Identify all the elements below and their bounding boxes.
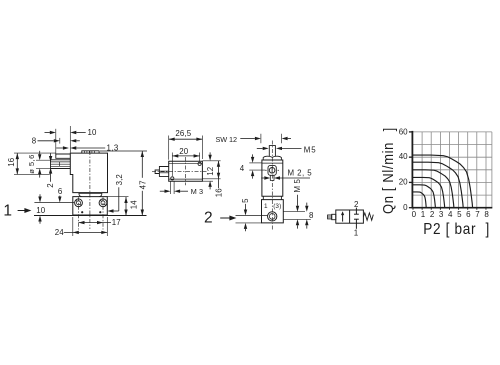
dim 5: arrows xyxy=(245,204,247,210)
view 2: port outer circle xyxy=(268,212,277,221)
view 1: coil body outline xyxy=(70,153,107,193)
dim 8: dimension line and arrows xyxy=(38,140,54,142)
top view: M3 hole bottom-left xyxy=(171,177,174,180)
svg-text:47: 47 xyxy=(138,180,147,189)
dim 17: dimension line with outward arrows xyxy=(79,222,112,224)
svg-text:6: 6 xyxy=(466,210,471,219)
view 2: manual override rounded square xyxy=(268,165,276,175)
svg-text:M 2, 5: M 2, 5 xyxy=(288,168,313,177)
dim 10 top: dimension line and arrows xyxy=(45,132,50,134)
top view: connector block xyxy=(159,167,168,177)
svg-text:M5: M5 xyxy=(304,145,317,154)
top view: body rectangle xyxy=(169,161,203,181)
svg-text:12: 12 xyxy=(206,167,215,176)
svg-text:4: 4 xyxy=(240,164,245,173)
svg-text:]: ] xyxy=(486,221,490,238)
svg-text:3,2: 3,2 xyxy=(115,174,124,185)
chart: horizontal gridlines xyxy=(413,132,492,195)
dim 16 left: dimension line with arrows xyxy=(16,153,18,174)
dim 3,2: leader line and arrow xyxy=(118,187,120,211)
view 1: right mounting screw xyxy=(99,199,107,207)
top view right extension lines xyxy=(202,160,220,162)
dim 10 top: extension line at body edge xyxy=(69,126,71,153)
view 2 right: port tangent extension lines xyxy=(283,211,305,213)
svg-text:5: 5 xyxy=(457,210,462,219)
svg-text:8: 8 xyxy=(32,136,37,145)
chart: vertical gridlines xyxy=(422,132,492,208)
dim 26,5: dimension line with outward arrows xyxy=(169,138,203,140)
symbol: solenoid box inner xyxy=(332,214,336,219)
top view: M3 hole top-right xyxy=(198,162,201,165)
view 1: left mounting screw xyxy=(75,199,83,207)
svg-text:M 3: M 3 xyxy=(191,187,204,196)
dim dia 5,6: arrows xyxy=(39,151,41,155)
svg-text:ø 5,6: ø 5,6 xyxy=(27,154,36,174)
view label 1: arrow xyxy=(18,210,26,212)
dim M5: arrows xyxy=(257,147,263,149)
view 2: hex nut top with arcs xyxy=(263,156,281,160)
symbol: valve body xyxy=(336,210,364,223)
chart: x axis ticks xyxy=(412,208,414,209)
svg-text:10: 10 xyxy=(36,206,46,215)
symbol: flow arrow in left cell xyxy=(342,215,344,222)
dim 12: arrows xyxy=(209,152,211,155)
svg-text:6: 6 xyxy=(58,187,63,196)
symbol: port line 2 xyxy=(355,208,357,210)
extension line from bump top to 47 dim xyxy=(100,150,147,152)
svg-text:40: 40 xyxy=(399,152,408,161)
svg-text:26,5: 26,5 xyxy=(175,129,191,138)
view 1: top connector bump xyxy=(82,151,99,153)
dim 4: extension lines xyxy=(249,162,261,164)
svg-text:60: 60 xyxy=(399,128,408,137)
view 2: override circle xyxy=(269,168,275,174)
svg-text:1: 1 xyxy=(3,203,12,220)
svg-text:0: 0 xyxy=(403,203,408,212)
view 2: body seam line xyxy=(262,162,283,164)
svg-text:Qn [ Nl/min: Qn [ Nl/min xyxy=(379,142,396,214)
svg-text:4: 4 xyxy=(448,210,453,219)
view 1: bottom mounting surface line xyxy=(34,215,147,217)
dim 10 bottom-left: arrows xyxy=(39,194,41,196)
chart: y axis ticks xyxy=(409,131,412,133)
top view: inner edge lines xyxy=(169,162,203,164)
dim M 5: leader arrows xyxy=(297,195,299,206)
dim SW 12: arrows xyxy=(240,138,255,140)
chart: x axis xyxy=(412,207,493,209)
svg-text:20: 20 xyxy=(179,147,189,156)
chart: y axis xyxy=(411,131,413,209)
svg-text:2: 2 xyxy=(354,200,359,209)
dim 4: arrows xyxy=(252,154,254,157)
dim 8: tick extension xyxy=(59,138,61,144)
dim 10 bottom-left: extension line at screw center height xyxy=(34,202,74,204)
dim 14: dimension line with arrows xyxy=(125,197,127,216)
top view: vertical center line xyxy=(185,157,187,185)
svg-text:24: 24 xyxy=(55,228,65,237)
svg-text:2: 2 xyxy=(430,210,435,219)
view 1: plug terminal block xyxy=(51,160,71,169)
view 1: bump ridge ticks xyxy=(83,151,85,153)
dim dia 5,6: extension lines xyxy=(36,159,50,161)
symbol: solenoid box outer xyxy=(328,215,332,219)
view 1: terminal end tick xyxy=(59,162,61,166)
top view: horizontal center line xyxy=(152,171,207,173)
svg-text:1: 1 xyxy=(354,228,359,237)
dim 10 top: extension line left xyxy=(55,129,57,156)
view 2: vertical center line xyxy=(271,141,273,231)
svg-text:16: 16 xyxy=(214,188,223,198)
svg-text:17: 17 xyxy=(112,218,121,227)
view 2: port center leader line xyxy=(236,215,268,217)
dim 2: arrows xyxy=(50,153,52,156)
dim 14: extension line at base top xyxy=(108,196,129,198)
symbol: blocked port top T xyxy=(355,210,357,214)
svg-text:10: 10 xyxy=(88,128,98,137)
view 2: lower block xyxy=(262,200,284,223)
svg-text:0: 0 xyxy=(412,210,417,219)
symbol: return spring xyxy=(363,213,373,220)
svg-text:3: 3 xyxy=(439,210,444,219)
dim SW 12: extension lines xyxy=(260,134,262,143)
svg-text:20: 20 xyxy=(399,177,408,186)
svg-text:2: 2 xyxy=(204,210,213,227)
svg-text:]: ] xyxy=(380,128,397,132)
svg-text:(3): (3) xyxy=(273,203,281,210)
view 2: port inner circle xyxy=(269,214,275,220)
svg-text:14: 14 xyxy=(130,200,139,210)
dim 16 left: extension lines xyxy=(14,152,56,154)
dim 8 right: arrows xyxy=(306,203,308,206)
view 1: mounting base block xyxy=(73,197,108,215)
view 2: stem below override xyxy=(270,175,274,180)
svg-text:M 5: M 5 xyxy=(293,178,302,192)
view 2: upper body rectangle xyxy=(262,160,283,196)
dim 1,3: arrows xyxy=(56,147,63,149)
view 2: M5 stem xyxy=(269,146,275,157)
view 1: screw center lines xyxy=(78,197,80,229)
svg-text:7: 7 xyxy=(475,210,480,219)
svg-text:SW 12: SW 12 xyxy=(216,135,237,144)
svg-text:16: 16 xyxy=(7,157,16,167)
dim M 3: arrows xyxy=(160,190,165,192)
symbol: blocked port bottom T xyxy=(355,219,357,223)
dim 26,5: extension lines xyxy=(168,136,170,160)
view 1: plug top piece xyxy=(56,154,71,158)
dim 20: extension lines to holes xyxy=(171,153,173,177)
symbol: solenoid mid line xyxy=(328,216,332,218)
svg-text:8: 8 xyxy=(309,211,314,220)
dim M 3: extension lines xyxy=(170,181,172,194)
view 1: vertical center line xyxy=(89,151,91,229)
dim 6: leader arrow down xyxy=(59,196,61,197)
symbol: cell divider xyxy=(349,210,351,223)
dim M 2,5: arrows xyxy=(261,177,264,179)
dim 24: dimension line with outward arrows xyxy=(64,231,108,233)
dim 47: dimension line xyxy=(141,151,143,178)
svg-text:1: 1 xyxy=(421,210,426,219)
svg-text:1,3: 1,3 xyxy=(107,144,119,153)
symbol: port line 1 xyxy=(355,223,357,229)
svg-text:1: 1 xyxy=(264,203,268,210)
svg-text:8: 8 xyxy=(484,210,489,219)
view label 2: arrow xyxy=(220,217,230,219)
top view: connector lines xyxy=(159,170,168,172)
chart: flow curves xyxy=(413,155,473,208)
view 2: override slot xyxy=(271,168,273,173)
svg-text:2: 2 xyxy=(46,183,55,188)
view 2: neck between body and block xyxy=(262,196,264,199)
top view: connector pin xyxy=(155,170,159,174)
svg-text:5: 5 xyxy=(241,198,250,203)
view 1: port dots on base bottom xyxy=(81,211,83,213)
dim 16 right: dimension line with arrows xyxy=(218,161,220,189)
svg-text:P2 [ bar: P2 [ bar xyxy=(423,221,476,238)
view 2: override side ticks xyxy=(265,169,266,171)
dim 20: dimension line with outward arrows xyxy=(172,155,199,157)
view 1: terminal lines xyxy=(51,161,71,163)
dim 24: extension lines xyxy=(72,217,74,236)
view 2: block bottom extension xyxy=(236,222,262,224)
view 1: bottom bridge between body and base xyxy=(79,193,102,197)
